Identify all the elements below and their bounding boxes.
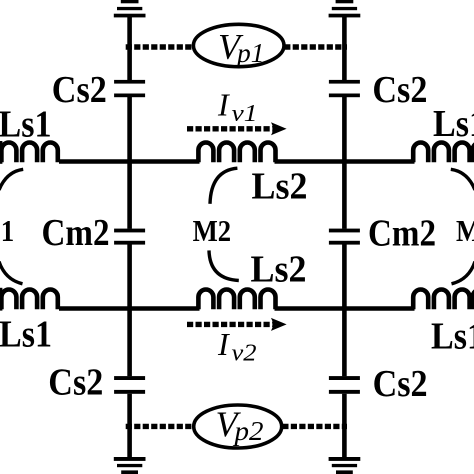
- coupling arc M2 lower: [209, 250, 239, 280]
- capacitor Cm2 right plates: [329, 229, 360, 233]
- wire left vertical: [127, 16, 132, 459]
- ground top-right: [336, 0, 354, 3]
- capacitor Cs2 top-left plates: [114, 80, 145, 84]
- coupling arc M1-left upper: [0, 169, 23, 190]
- inductor Ls1 top-right: [413, 143, 474, 163]
- svg-text:Ls1: Ls1: [433, 103, 474, 145]
- svg-text:M1: M1: [0, 214, 14, 248]
- ground bottom-left: [114, 457, 146, 461]
- coupling arc M1-left lower: [0, 262, 23, 284]
- svg-text:Ls1: Ls1: [0, 103, 52, 145]
- capacitor Cs2 bottom-left plates: [114, 376, 145, 380]
- arrowhead Iv1: [271, 122, 287, 135]
- arrowhead Iv2: [271, 318, 287, 331]
- inductor Ls1 top-left: [0, 142, 58, 162]
- inductor Ls1 bottom-left: [0, 289, 58, 309]
- source Vp2 ellipse: [194, 405, 282, 448]
- svg-text:M1: M1: [456, 214, 474, 248]
- ground bottom-right: [329, 457, 361, 461]
- capacitor Cm2 left plates: [114, 229, 145, 233]
- svg-text:Cs2: Cs2: [373, 363, 428, 405]
- wire bottom horizontal: [59, 306, 415, 311]
- svg-text:M2: M2: [193, 214, 232, 248]
- wire top horizontal: [59, 159, 415, 164]
- inductor Ls1 bottom-left cut leg at edge: [0, 288, 2, 311]
- source Vp1 ellipse: [193, 24, 284, 66]
- svg-text:Ls2: Ls2: [251, 249, 307, 291]
- wire dashed bottom-left to Vp2: [126, 424, 194, 429]
- coupling arc M1-right upper: [451, 169, 474, 190]
- inductor Ls2 bottom-center: [198, 290, 275, 310]
- svg-text:Ls1: Ls1: [0, 314, 52, 356]
- wire dashed top-right from Vp1: [284, 44, 347, 49]
- wire dashed top-left to Vp1: [126, 44, 194, 49]
- wire dashed bottom-right from Vp2: [282, 424, 347, 429]
- svg-text:Cm2: Cm2: [368, 213, 436, 255]
- svg-text:Ls1: Ls1: [431, 315, 474, 357]
- svg-text:p1: p1: [235, 38, 265, 68]
- inductor Ls1 top-left cut leg at edge: [0, 141, 2, 164]
- svg-text:Cs2: Cs2: [52, 69, 107, 111]
- coupling arc M1-right lower: [452, 262, 474, 284]
- svg-text:v2: v2: [232, 341, 257, 367]
- capacitor Cs2 top-right plates: [329, 80, 360, 84]
- svg-text:Ls2: Ls2: [252, 165, 308, 207]
- svg-text:I: I: [217, 87, 230, 123]
- inductor Ls2 top-center: [198, 143, 275, 163]
- inductor Ls1 bottom-right: [413, 290, 474, 310]
- dashed arrow line Iv2: [187, 322, 273, 327]
- ground top-left: [121, 0, 139, 3]
- svg-text:Cs2: Cs2: [372, 69, 427, 111]
- svg-text:p2: p2: [232, 416, 263, 446]
- wire right vertical: [342, 16, 347, 459]
- svg-text:I: I: [217, 326, 230, 362]
- coupling arc M2 upper: [210, 168, 237, 204]
- svg-text:v1: v1: [232, 101, 258, 127]
- svg-text:Cm2: Cm2: [42, 212, 110, 254]
- capacitor Cs2 bottom-right plates: [329, 376, 360, 380]
- dashed arrow line Iv1: [187, 126, 273, 131]
- svg-text:Cs2: Cs2: [48, 361, 103, 403]
